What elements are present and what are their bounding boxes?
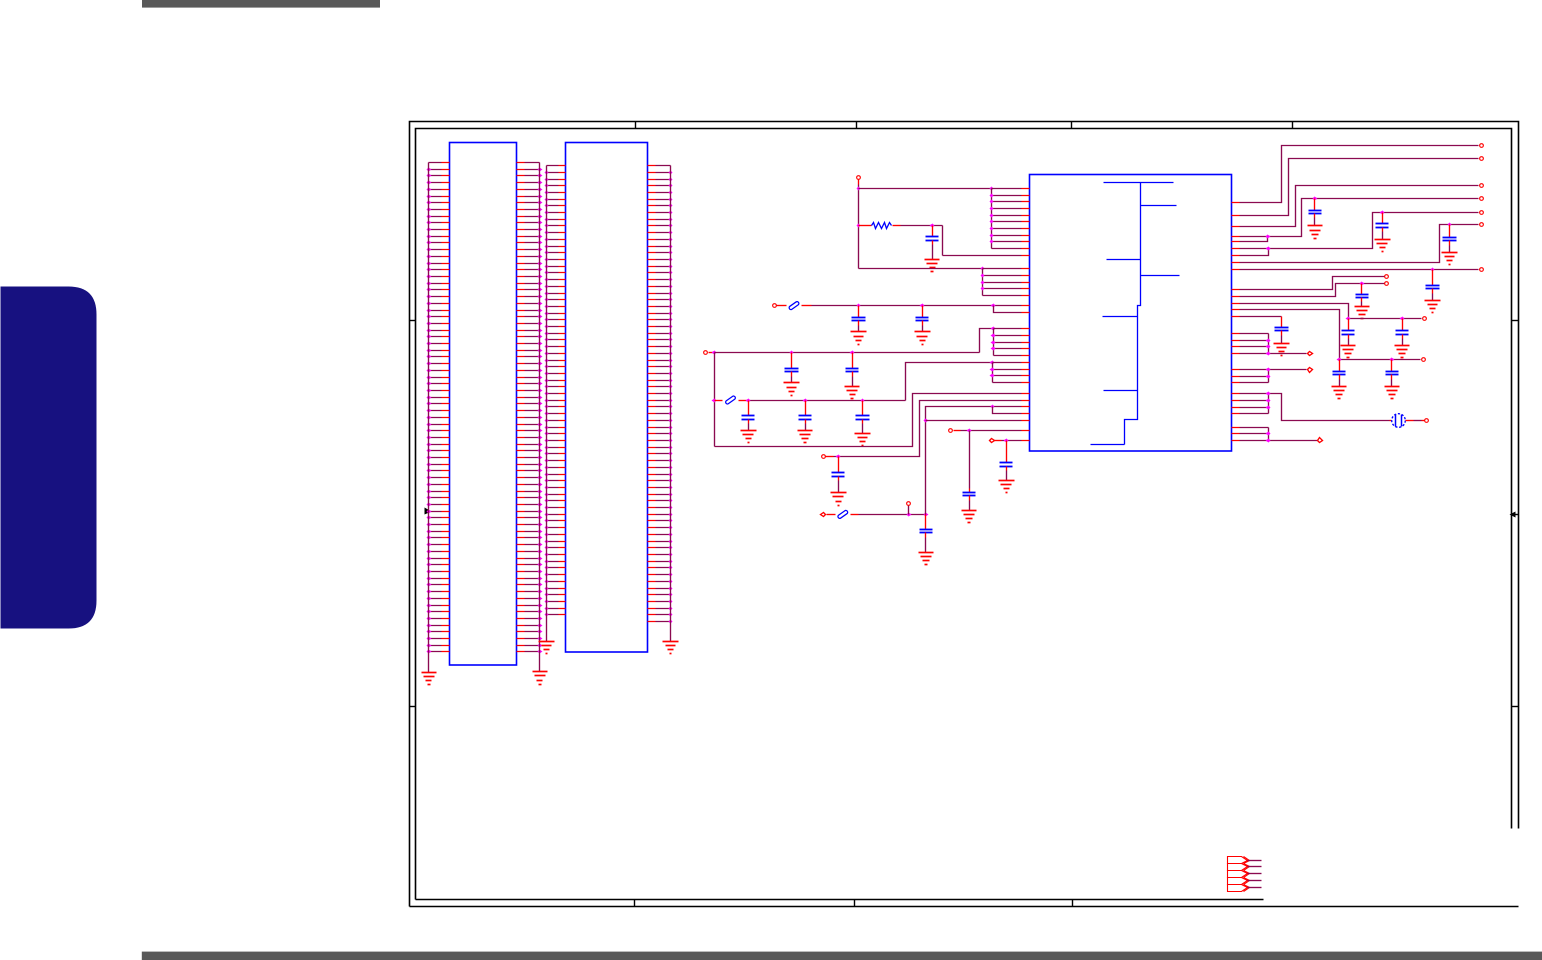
junction at C12: [1004, 439, 1009, 443]
ground for C9: [831, 493, 847, 506]
ferrite bead / fuse FB3: [837, 510, 848, 519]
net N9: IC pin to port row 282.6: [1240, 284, 1385, 297]
wire: R1 to C1 node: [901, 225, 943, 227]
ground for C4: [784, 383, 800, 396]
port Q14: [1425, 419, 1429, 423]
junction at C10: [924, 513, 929, 517]
border zone tick marks: [410, 122, 1519, 907]
ground for C10: [919, 553, 934, 565]
junction at C2: [857, 304, 861, 308]
capacitor C9: [832, 457, 845, 493]
left border pointer arrow: [425, 508, 432, 515]
wire: J1 right pin bus to ground: [539, 163, 541, 672]
net N8: IC pin to port row 276.1: [1240, 277, 1385, 290]
wire: P4 net to IC row 400: [834, 401, 1022, 457]
junction at C3: [920, 304, 925, 308]
wire: J2 right pin bus to ground: [670, 166, 672, 642]
port Q1: [1480, 144, 1484, 148]
port P4 (net row 456.9): [822, 455, 826, 459]
port P7 (net row 430.2): [949, 429, 953, 433]
junction FB1 net branch: [991, 304, 996, 308]
wire stub for arrow 2: [1248, 866, 1262, 868]
port Q5: [1480, 211, 1484, 215]
junction row 420: [924, 419, 929, 423]
capacitor C7: [799, 401, 812, 431]
wire stub for arrow 3: [1248, 873, 1262, 875]
port P3 (net row 352.9): [704, 351, 708, 355]
port P8 (net row 440.4): [990, 439, 995, 443]
port P6 (stub above FB3 net): [908, 506, 910, 515]
wire: feed to IC pin group A: [859, 188, 992, 190]
ground for C3: [915, 332, 931, 345]
junction at fuse FB2 row: [712, 399, 717, 403]
junction at C19: [1400, 317, 1405, 321]
capacitor C10: [920, 515, 933, 553]
connector J1 (docking board-to-board) body: [450, 143, 517, 666]
junction at C14: [1380, 211, 1385, 215]
junction N5: [1266, 247, 1271, 251]
ground for C2: [851, 332, 867, 345]
junction on P1 feed at resistor row: [857, 224, 861, 228]
capacitor C13: [1309, 199, 1322, 226]
junction at C15: [1448, 223, 1452, 227]
ground for C20: [1332, 387, 1347, 399]
junction row 406.8 branch: [991, 405, 995, 409]
IC U1 left pin stubs: [1022, 189, 1030, 441]
wire: P7 net to IC: [961, 430, 1022, 432]
port P5 (fuse net row 514.4): [821, 513, 826, 517]
capacitor C22: [1275, 317, 1289, 344]
ground for C18: [1341, 346, 1356, 358]
wire stub for arrow 5: [1248, 887, 1262, 889]
IC group B pin bus: [982, 269, 984, 296]
junction group B bus top: [981, 267, 985, 271]
IC group A pin bus: [991, 189, 993, 249]
off-page arrow 2: [1228, 864, 1248, 871]
capacitor C4: [785, 353, 799, 383]
wire stub for arrow 1: [1248, 860, 1262, 862]
connector J1 left pin bank (74 pins) with junction dots: [427, 163, 450, 654]
schematic sheet inner border: [416, 129, 1512, 900]
capacitor C19: [1396, 319, 1409, 346]
ground for C19: [1395, 346, 1410, 358]
capacitor C21: [1386, 360, 1399, 387]
bottom gray footer bar: [142, 952, 1542, 960]
capacitor C20: [1333, 360, 1346, 387]
port Q3: [1480, 184, 1484, 188]
navy side tab: [1, 287, 97, 629]
wire: P1 vertical feed: [858, 180, 860, 185]
ground for C7: [798, 431, 813, 443]
ground for C12: [999, 481, 1015, 493]
net N7: IC pin straight to port row 269: [1240, 269, 1479, 271]
port Q2: [1480, 157, 1484, 161]
port Q6: [1480, 223, 1484, 227]
wire: FB1 net to IC: [812, 305, 994, 307]
junction at C7: [803, 399, 808, 403]
ground for C14: [1375, 240, 1391, 252]
junction at C4: [790, 351, 794, 355]
capacitor C15: [1443, 225, 1457, 253]
net N13: three IC pins bused to port row 352.8: [1240, 334, 1307, 354]
junctions N16: [1266, 432, 1271, 436]
port Q10: [1423, 317, 1427, 321]
capacitor C5: [846, 353, 859, 387]
off-page arrow 4: [1228, 878, 1248, 885]
off-page arrow 1: [1228, 857, 1248, 864]
top gray header bar: [142, 0, 380, 8]
wire: FB1 net second IC pin: [994, 306, 1022, 313]
capacitor C1: [926, 226, 939, 260]
port P1 (power input, top): [857, 176, 861, 180]
connector J2 (docking board-to-board) body: [566, 143, 648, 653]
wire: FB2 net across caps to IC group D: [747, 400, 906, 402]
capacitor C11: [963, 489, 976, 511]
connector J2 right pin bank (69 pins) with junction dots: [648, 166, 673, 624]
net N5: two IC pins to port row 212.3: [1240, 213, 1479, 256]
capacitor C2: [852, 306, 866, 332]
port Q13: [1308, 368, 1313, 373]
off-page arrow 3: [1228, 871, 1248, 878]
capacitor C12: [1000, 441, 1013, 481]
capacitor C3: [916, 306, 929, 332]
wire: P1 feed to IC pin group B: [859, 268, 983, 270]
ground for C17: [1355, 307, 1370, 319]
junction at C21: [1390, 358, 1395, 362]
ground for J2 left bus: [539, 642, 555, 654]
ground for J1 left bus: [422, 673, 437, 685]
ground for C15: [1442, 253, 1458, 265]
ground for J1 right bus: [533, 672, 548, 685]
capacitor C18: [1342, 319, 1355, 346]
junction group A bus top: [990, 187, 994, 191]
right border pointer arrow: [1510, 512, 1516, 518]
capacitor C14: [1376, 213, 1389, 240]
capacitor C6: [742, 401, 755, 431]
fuse net row 400: [715, 400, 723, 402]
port Q4: [1480, 197, 1484, 201]
ground for C6: [741, 431, 757, 443]
net N16: IC pins 426.9/433.4/440 to port: [1240, 428, 1318, 441]
net N6: IC pin to port row 224.9: [1240, 225, 1479, 263]
wire: FB3 net up to IC rows 406.8/413.3/420.0: [926, 407, 1022, 515]
IC U1 (docking controller) body: [1030, 175, 1232, 452]
net N1: IC pin to port row 145: [1240, 146, 1479, 203]
ground for C16: [1425, 301, 1441, 313]
junctions N14: [1266, 368, 1271, 372]
IC U1 internal section dividers: [1091, 183, 1180, 445]
schematic sheet outer border: [410, 122, 1519, 907]
ground for C13: [1308, 226, 1323, 239]
junction P3 net / vertical branch: [712, 351, 717, 355]
ground for C22: [1274, 344, 1290, 356]
junction at C1: [930, 224, 935, 228]
port Q12: [1308, 352, 1313, 356]
junction at C5: [850, 351, 855, 355]
junction at C6: [746, 399, 751, 403]
net N2: IC pin to port row 158.9: [1240, 159, 1479, 216]
wire: J1 left pin bus to ground: [428, 163, 430, 673]
ground for C1: [925, 260, 940, 272]
junction at C16: [1431, 268, 1435, 272]
port Q9: [1385, 282, 1389, 286]
junction at C18: [1346, 317, 1351, 321]
junction at C17: [1360, 282, 1365, 286]
wire: lower rectangle feed to IC row 393: [715, 394, 1022, 447]
ground for C5: [845, 387, 860, 399]
junction at C11 branch: [967, 429, 972, 433]
junction on P1 feed at pin-bus row: [857, 187, 861, 191]
capacitor C17: [1356, 284, 1369, 307]
ferrite bead / fuse FB1: [788, 301, 799, 310]
connector J1 right pin bank (74 pins) with junction dots: [517, 163, 543, 654]
junction at C9: [836, 455, 841, 459]
junction group C bus top: [991, 327, 996, 331]
junction N4: [1266, 235, 1271, 239]
junction at C13: [1313, 197, 1318, 201]
port Q11: [1422, 358, 1426, 362]
junction group D bus top: [990, 361, 995, 365]
wire: J2 left pin bus to ground: [546, 166, 548, 642]
wire: FB3 net: [859, 514, 926, 516]
ground for C8: [855, 434, 871, 446]
ground for C21: [1385, 387, 1400, 399]
port Q15: [1318, 438, 1323, 443]
off-page arrow 5: [1228, 885, 1248, 892]
port Q8: [1385, 275, 1389, 279]
capacitor C16: [1426, 270, 1440, 301]
crystal Y1: [1390, 420, 1392, 422]
port P2 (fuse net, row 305.6): [773, 304, 777, 308]
wire: P3 net across caps to IC group C: [715, 352, 980, 354]
net N4: two IC pins to port row 198.8: [1240, 199, 1479, 242]
IC U1 right pin stubs: [1232, 203, 1240, 441]
wire: Y1 to port: [1406, 420, 1414, 422]
IC group C pin bus: [993, 329, 995, 356]
ferrite bead / fuse FB2: [725, 395, 736, 404]
ground for J2 right bus: [663, 642, 679, 654]
wire: RC node down to IC pin row: [942, 226, 944, 256]
port Q7: [1480, 268, 1484, 272]
net N3: IC pin to port row 185.5: [1240, 186, 1479, 227]
junction at C8: [861, 399, 865, 403]
connector J2 left pin bank (68 pins) with junction dots: [545, 166, 566, 617]
off-page connector arrows (5) bottom right: [1228, 857, 1262, 892]
junction P6 stub: [907, 513, 912, 517]
junctions N15: [1266, 392, 1271, 396]
net N11: IC pin to port row 359.7 with two caps: [1240, 310, 1421, 360]
junction at C20: [1337, 358, 1342, 362]
wire stub for arrow 4: [1248, 880, 1262, 882]
IC group D pin bus: [992, 363, 994, 383]
net N10: IC pin to port row 319.3 with two caps: [1240, 304, 1422, 319]
junctions N13: [1266, 339, 1271, 343]
wire: vertical branch from P3 net down: [714, 353, 716, 447]
ground for C11: [962, 511, 977, 523]
capacitor C8: [856, 401, 870, 434]
net N15: IC pins 393-413 bused to crystal row 420: [1240, 394, 1390, 421]
net N12: IC pin to bypass cap C22: [1240, 316, 1282, 318]
wire: C11 long drop: [969, 431, 971, 489]
net N14: three IC pins bused to port row 369.1: [1240, 370, 1307, 383]
resistor R1: [859, 225, 872, 227]
